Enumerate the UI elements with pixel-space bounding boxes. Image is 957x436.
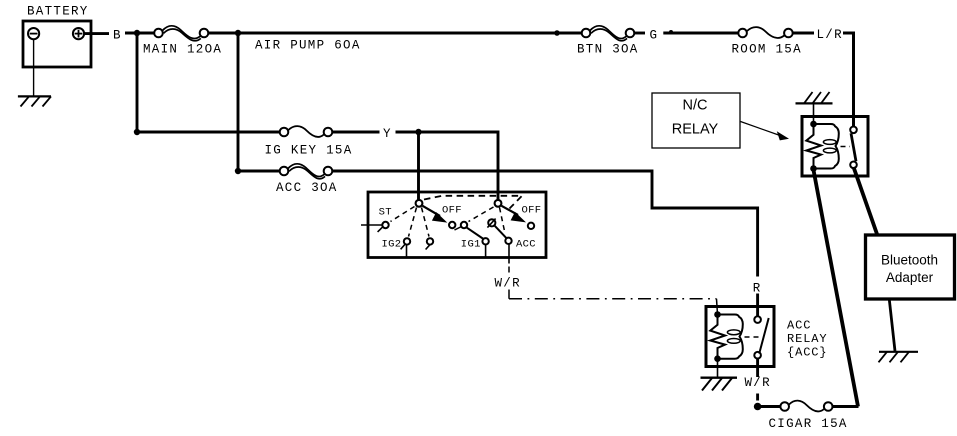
- wire R label to ACC relay: [756, 294, 759, 317]
- wire circled terminal to ACC: [494, 225, 507, 239]
- switch2 left terminal circle: [461, 222, 467, 228]
- blank terminal circle: [427, 238, 433, 244]
- wire N/C relay coil to cigar line (thick slant): [814, 170, 859, 407]
- fuse CIGAR 15A: [780, 401, 832, 412]
- svg-text:BATTERY: BATTERY: [27, 5, 89, 19]
- dashed spoke pole2 to ACC: [500, 208, 505, 232]
- W/R dash-dot from ignition ACC: [508, 267, 510, 273]
- N/C relay U1: [802, 117, 868, 177]
- wire N/C relay switch to Bluetooth adapter (thick slant): [854, 167, 878, 236]
- svg-text:OFF: OFF: [442, 204, 462, 216]
- wire G to ROOM fuse: [663, 32, 738, 35]
- terminal ST circle: [382, 222, 388, 228]
- dashed spoke pole2 to BTN terminal: [469, 207, 494, 222]
- wire switch2 left terminal to IG1: [466, 227, 483, 239]
- wire junction to IG KEY fuse: [137, 131, 280, 134]
- junction dot at B feed: [134, 30, 140, 36]
- dashed spoke pole1 to IG2: [409, 208, 417, 237]
- svg-text:OFF: OFF: [522, 204, 542, 216]
- switch2 left terminal slash: [455, 227, 462, 231]
- svg-text:Bluetooth: Bluetooth: [881, 252, 938, 267]
- battery BT1: [23, 21, 91, 67]
- wire L/R corner down to N/C relay: [843, 33, 854, 127]
- wire IG1 to box bottom: [485, 245, 487, 257]
- wire cigar junction to fuse: [758, 405, 781, 408]
- wire ACC fuse to ACC relay (R feed): [332, 171, 757, 277]
- Bluetooth Adapter box: [866, 235, 955, 299]
- svg-text:MAIN 12OA: MAIN 12OA: [143, 43, 222, 57]
- svg-text:ACC: ACC: [516, 239, 536, 251]
- wire ROOM fuse to L/R: [793, 32, 814, 35]
- ignition switch pole 2: [495, 200, 502, 207]
- ignition switch box: [368, 192, 546, 258]
- svg-text:ST: ST: [379, 207, 392, 219]
- junction dot cigar feed: [754, 403, 762, 411]
- wire B to junction: [125, 32, 155, 35]
- terminal IG2 circle: [404, 238, 410, 244]
- wire MAIN fuse to BTN fuse (AIR PUMP 60A feed): [208, 32, 581, 35]
- svg-text:IG1: IG1: [461, 239, 481, 251]
- circled slash terminal: [488, 219, 495, 226]
- fuse ROOM 15A: [738, 27, 792, 38]
- junction dot above pole 1: [415, 129, 421, 135]
- junction dot air pump / BTN: [554, 30, 560, 36]
- svg-text:IG KEY 15A: IG KEY 15A: [265, 143, 353, 157]
- svg-text:BTN 3OA: BTN 3OA: [577, 42, 639, 56]
- fuse IG KEY 15A: [280, 126, 333, 137]
- svg-text:ACC: ACC: [787, 319, 811, 333]
- wire ACC relay coil to ground: [717, 361, 719, 378]
- wire BTN fuse to node G: [634, 32, 645, 35]
- wire MAIN junction down to ACC row: [237, 33, 240, 171]
- fuse MAIN 120A (fusible link): [154, 26, 208, 41]
- terminal IG2 slash: [401, 244, 405, 249]
- ignition switch pole 1: [416, 200, 423, 207]
- svg-text:Y: Y: [383, 127, 392, 141]
- ground below ACC relay: [701, 378, 738, 391]
- wire junction to ACC fuse: [238, 170, 280, 173]
- svg-text:IG2: IG2: [382, 239, 402, 251]
- terminal OFF1 circle: [449, 222, 455, 228]
- ground above N/C relay: [796, 92, 833, 103]
- svg-text:G: G: [650, 28, 659, 42]
- svg-text:RELAY: RELAY: [787, 332, 828, 346]
- terminal ACC circle: [505, 238, 511, 244]
- wire N/C relay coil to ground above: [813, 103, 815, 124]
- wire Bluetooth adapter to ground: [889, 300, 895, 352]
- svg-text:B: B: [113, 28, 122, 42]
- ACC relay U2: [706, 307, 774, 367]
- svg-text:Adapter: Adapter: [886, 270, 934, 285]
- svg-text:L/R: L/R: [817, 28, 843, 42]
- svg-text:ROOM 15A: ROOM 15A: [732, 42, 802, 56]
- wire cigar fuse to coil line: [833, 405, 859, 408]
- dashed spoke pole1 to blank terminal: [422, 208, 430, 237]
- blank terminal slash: [426, 245, 430, 250]
- terminal IG1 circle: [482, 238, 488, 244]
- svg-text:CIGAR 15A: CIGAR 15A: [769, 417, 848, 431]
- wire B junction down to IG KEY row: [136, 33, 139, 132]
- svg-text:ACC 3OA: ACC 3OA: [276, 181, 338, 195]
- wire Y to switch pole 2 corner: [396, 132, 499, 200]
- terminal ST stub wire: [361, 224, 382, 226]
- terminal OFF2 circle: [528, 223, 534, 229]
- annotation arrow to N/C relay: [741, 122, 781, 136]
- svg-text:N/C: N/C: [683, 97, 708, 113]
- OFF arrow switch 2: [502, 206, 519, 215]
- ground below Bluetooth adapter: [879, 352, 919, 363]
- W/R dash-dot drop into ACC relay: [717, 299, 718, 315]
- wire battery plus to node B: [84, 32, 109, 35]
- svg-text:R: R: [753, 282, 762, 296]
- fuse BTN 30A (fusible link): [582, 26, 635, 41]
- annotation box N/C RELAY: [652, 93, 740, 148]
- wire IG KEY fuse to Y: [332, 131, 379, 134]
- svg-text:{ACC}: {ACC}: [787, 346, 828, 360]
- wire ACC relay switch to W/R: [756, 359, 759, 377]
- junction dot IG KEY row: [134, 129, 140, 135]
- wire W/R to cigar junction: [756, 394, 759, 401]
- terminal ST slash: [378, 227, 383, 232]
- W/R dash-dot horizontal run: [509, 298, 717, 300]
- svg-text:W/R: W/R: [745, 376, 771, 390]
- svg-text:W/R: W/R: [495, 277, 521, 291]
- junction dot after G: [669, 30, 673, 34]
- fuse ACC 30A (fusible link): [280, 164, 333, 179]
- OFF arrow switch 1: [423, 206, 441, 216]
- ground below battery: [18, 96, 51, 106]
- wire IG2 to box bottom: [406, 245, 408, 257]
- dashed gang link pole1 to pole2: [424, 196, 522, 209]
- junction dot after MAIN fuse: [235, 30, 241, 36]
- dashed spoke pole1 to ST: [391, 207, 415, 222]
- wire junction down to switch pole 1: [417, 132, 420, 200]
- svg-text:RELAY: RELAY: [672, 122, 719, 138]
- junction dot ACC row: [235, 168, 241, 174]
- W/R dash-dot vertical below label: [508, 290, 510, 299]
- wire ACC terminal exits box: [508, 244, 510, 264]
- svg-text:AIR PUMP 6OA: AIR PUMP 6OA: [255, 39, 361, 53]
- wire battery minus to ground: [33, 39, 35, 96]
